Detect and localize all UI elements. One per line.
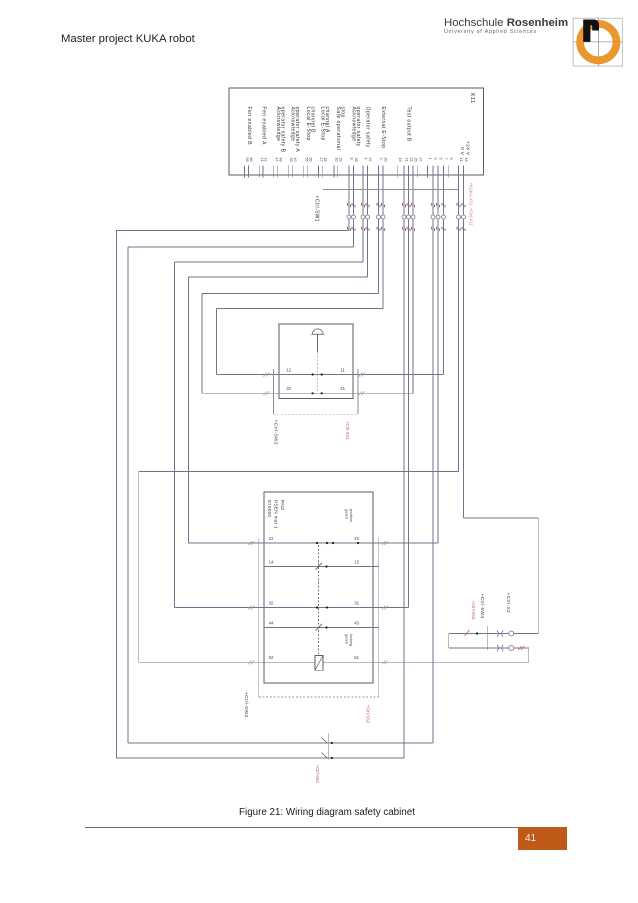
wire left vertical x=128 <box>127 247 129 743</box>
svg-text:28: 28 <box>354 158 358 162</box>
svg-text:21: 21 <box>340 386 345 391</box>
svg-text:60: 60 <box>249 158 253 162</box>
row 32-31 <box>175 607 409 609</box>
mechanical link <box>487 626 489 650</box>
svg-text:Fen enabled B: Fen enabled B <box>246 107 252 146</box>
wire <box>378 175 380 215</box>
svg-text:21: 21 <box>405 158 409 162</box>
PNZ box outline <box>264 492 373 683</box>
X2 terminal <box>509 646 514 651</box>
svg-text:operator safety A: operator safety A <box>294 107 300 153</box>
wire left vertical x=216 <box>216 309 218 375</box>
contact slash <box>316 624 323 631</box>
row 22-21 <box>189 542 439 544</box>
wire run y=294 <box>202 293 379 295</box>
wire x=438 to PNZ row 21 <box>437 219 439 543</box>
wire x=408.5 to PNZ row 31 <box>408 219 410 607</box>
connector pin <box>457 215 461 219</box>
svg-text:42: 42 <box>264 158 268 162</box>
slash <box>322 753 328 759</box>
svg-text:position: position <box>349 509 354 522</box>
svg-text:25: 25 <box>414 158 418 162</box>
svg-text:22: 22 <box>269 536 274 541</box>
svg-text:11: 11 <box>340 367 345 372</box>
wire x=433 to bottom switch <box>432 219 434 743</box>
svg-text:41: 41 <box>459 158 463 162</box>
svg-text:32: 32 <box>286 386 291 391</box>
footer rule <box>85 827 518 828</box>
wire drop x=378 <box>378 219 380 293</box>
bell box outline <box>279 324 353 399</box>
svg-text:+Ctrl-S64: +Ctrl-S64 <box>315 765 320 784</box>
svg-text:+Ctrl-X2: +Ctrl-X2 <box>505 593 511 614</box>
svg-text:40: 40 <box>293 158 297 162</box>
black r glyph <box>583 20 599 42</box>
svg-text:+Ctrl-SW1: +Ctrl-SW1 <box>314 196 320 222</box>
svg-text:2: 2 <box>379 158 383 160</box>
svg-text:+Ctrl-SW2: +Ctrl-SW2 <box>273 420 279 445</box>
wire drop x=383 <box>382 219 384 308</box>
wire <box>382 175 384 215</box>
wire 0V vertical to coil row <box>138 472 140 663</box>
svg-text:+KUKA-X11 +Ctrl-X11: +KUKA-X11 +Ctrl-X11 <box>469 183 474 227</box>
wire run y=308 <box>217 308 384 310</box>
caption <box>0 807 638 818</box>
wire +24V run right <box>464 517 539 519</box>
wire drop x=349 <box>348 219 350 230</box>
row 14-13 <box>264 566 379 568</box>
svg-text:31: 31 <box>354 600 359 605</box>
svg-text:1: 1 <box>428 158 432 160</box>
bracket left <box>258 538 260 697</box>
svg-text:stop: stop <box>340 107 346 118</box>
svg-text:27: 27 <box>418 158 422 162</box>
svg-text:Operator safety: Operator safety <box>365 107 371 148</box>
row 1 <box>128 742 433 744</box>
svg-text:19: 19 <box>398 158 402 162</box>
svg-text:+Ctrl-SS3: +Ctrl-SS3 <box>471 601 476 620</box>
svg-text:Fen enabled A: Fen enabled A <box>260 107 266 145</box>
svg-text:8: 8 <box>350 158 354 160</box>
connector pin <box>347 215 351 219</box>
logo cross lines <box>573 41 622 43</box>
bracket right <box>357 369 359 414</box>
wire <box>432 175 434 215</box>
svg-text:59: 59 <box>245 158 249 162</box>
svg-text:56: 56 <box>308 158 312 162</box>
svg-text:39: 39 <box>289 158 293 162</box>
logo mark <box>570 15 628 71</box>
wire drop x=363 <box>362 219 364 262</box>
page number box <box>518 827 567 850</box>
wire <box>443 175 445 215</box>
svg-text:32: 32 <box>269 600 274 605</box>
svg-text:29: 29 <box>339 158 343 162</box>
svg-text:41: 41 <box>260 158 264 162</box>
X11 box outline <box>229 88 484 175</box>
row A <box>449 633 539 635</box>
connector pin <box>462 215 466 219</box>
wire <box>362 175 364 215</box>
svg-text:7: 7 <box>444 158 448 160</box>
switch actuator link <box>327 733 329 760</box>
wire left vertical x=116 <box>116 231 118 759</box>
svg-text:+Ctrl-5W4: +Ctrl-5W4 <box>479 594 485 619</box>
svg-text:channel A: channel A <box>324 107 330 133</box>
wire run y=277 <box>189 276 368 278</box>
svg-text:PNZ: PNZ <box>280 500 285 510</box>
bracket right <box>378 538 380 697</box>
header title <box>61 33 195 45</box>
wire run y=230 <box>117 230 350 232</box>
row 62 left <box>139 661 315 663</box>
logo square frame <box>573 18 622 66</box>
orange ring <box>580 24 616 60</box>
svg-text:locking: locking <box>349 634 354 646</box>
wire drop x=368 <box>367 219 369 277</box>
svg-text:5: 5 <box>439 158 443 160</box>
connector pin <box>442 215 446 219</box>
bell (horn) symbol <box>312 329 323 334</box>
svg-text:9: 9 <box>449 158 453 160</box>
wire x=404 to bottom switch <box>403 219 405 758</box>
X2 terminal <box>509 631 514 636</box>
svg-text:PSEN mat 1: PSEN mat 1 <box>274 500 279 529</box>
bracket dashed bottom <box>273 413 358 415</box>
connector pin <box>431 215 435 219</box>
svg-text:22: 22 <box>368 158 372 162</box>
svg-text:20: 20 <box>384 158 388 162</box>
relay coil <box>315 656 323 671</box>
svg-text:X11: X11 <box>469 93 475 104</box>
wire <box>353 175 355 215</box>
svg-text:55: 55 <box>305 158 309 162</box>
wire <box>458 175 460 215</box>
dashed actuator link inside PNZ <box>318 545 320 654</box>
svg-text:62: 62 <box>269 655 274 660</box>
wire <box>437 175 439 215</box>
wire +24V vertical to K12 row <box>537 518 539 634</box>
connector pin <box>377 215 381 219</box>
svg-text:Test output B: Test output B <box>405 107 411 142</box>
wire <box>403 175 405 215</box>
connector pin <box>361 215 365 219</box>
svg-text:48: 48 <box>278 158 282 162</box>
svg-text:3: 3 <box>434 158 438 160</box>
wire left vertical x=174 <box>174 262 176 608</box>
bracket dashed bottom <box>259 696 379 698</box>
contact slash <box>316 563 323 570</box>
contact slash red <box>465 630 470 636</box>
wire <box>412 175 414 215</box>
svg-text:14: 14 <box>269 559 274 564</box>
connector pin <box>402 215 406 219</box>
row 61 right <box>323 661 529 663</box>
svg-text:channel B: channel B <box>310 107 316 134</box>
left bracket join <box>448 634 450 649</box>
svg-text:External E-Stop: External E-Stop <box>380 107 386 149</box>
wire x=413 to bell row 21 <box>412 219 414 393</box>
svg-text:+Ctrl-SW3: +Ctrl-SW3 <box>243 692 249 717</box>
wire run y=247 <box>128 246 354 248</box>
wire <box>408 175 410 215</box>
wire <box>463 175 465 215</box>
svg-text:+24 V: +24 V <box>465 141 471 156</box>
svg-text:operator safety: operator safety <box>355 107 361 147</box>
row 44-43 <box>264 627 379 629</box>
connector pin <box>366 215 370 219</box>
connector halves row A <box>497 630 499 636</box>
svg-text:12: 12 <box>286 367 291 372</box>
drop to row 61 <box>528 648 530 662</box>
svg-text:10: 10 <box>335 158 339 162</box>
svg-text:4: 4 <box>364 158 368 160</box>
svg-text:47: 47 <box>274 158 278 162</box>
wire left vertical x=202 <box>201 294 203 394</box>
svg-text:18: 18 <box>464 158 468 162</box>
svg-text:13: 13 <box>354 559 359 564</box>
svg-text:+Ctrl-SS2: +Ctrl-SS2 <box>366 705 371 724</box>
svg-text:guard: guard <box>345 634 350 644</box>
svg-text:570000: 570000 <box>267 500 272 518</box>
logo wordmark <box>444 17 568 29</box>
wire x=443.5 to bell row 11 <box>443 219 445 374</box>
connector pin <box>381 215 385 219</box>
cable bundle line <box>323 189 459 191</box>
svg-text:43: 43 <box>354 620 359 625</box>
wire left vertical x=188 <box>188 277 190 543</box>
svg-text:+Ctrl-SS1: +Ctrl-SS1 <box>345 421 350 440</box>
svg-text:operator safety B: operator safety B <box>280 107 286 153</box>
actuator dashed link <box>317 352 319 391</box>
row 32-21 <box>202 392 413 394</box>
row B <box>449 647 529 649</box>
svg-text:guard: guard <box>345 509 350 519</box>
wire <box>348 175 350 215</box>
wire 0V run left <box>139 471 459 473</box>
bell stem <box>317 334 319 352</box>
connector pin <box>411 215 415 219</box>
wire run y=262 <box>175 261 364 263</box>
tiny wire-number marks above/below connectors <box>347 203 348 206</box>
connector pin <box>352 215 356 219</box>
connector pin <box>436 215 440 219</box>
svg-text:28: 28 <box>323 158 327 162</box>
row 12-11 <box>217 374 444 376</box>
wire +24V down <box>463 219 465 518</box>
connector pin <box>407 215 411 219</box>
wire <box>367 175 369 215</box>
wire drop x=354 <box>353 219 355 247</box>
slash <box>322 738 328 744</box>
svg-text:23: 23 <box>409 158 413 162</box>
wire 0V down <box>458 219 460 471</box>
row 2 <box>117 757 405 759</box>
svg-text:61: 61 <box>354 655 359 660</box>
svg-text:27: 27 <box>319 158 323 162</box>
svg-text:44: 44 <box>269 620 274 625</box>
svg-text:0 V: 0 V <box>459 147 465 156</box>
X11 pin ticks and pin numbers <box>244 166 246 178</box>
bracket left <box>272 369 274 414</box>
svg-text:21: 21 <box>354 536 359 541</box>
